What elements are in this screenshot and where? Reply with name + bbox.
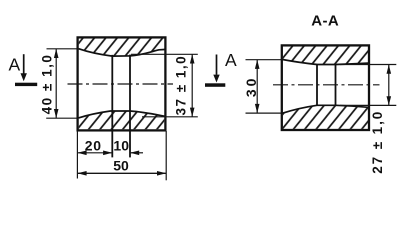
right view (A-A): outer rectangle outline	[282, 45, 369, 130]
left view: centerline (axis)	[68, 83, 174, 85]
svg-text:A-A: A-A	[311, 13, 339, 30]
extension line below right face (for 50)	[165, 131, 167, 180]
dimension 20: arrowheads	[77, 151, 112, 156]
dimension 37±1,0: dimension line	[191, 54, 193, 117]
svg-text:37 ± 1,0: 37 ± 1,0	[174, 55, 189, 116]
extension line below left face (for 20 and 50)	[76, 131, 78, 179]
dimension 30: dimension line	[256, 60, 258, 113]
section marker A (right): arrow	[213, 55, 219, 83]
section marker A (right): thick cut bar	[205, 83, 225, 87]
left view: outer rectangle outline	[78, 37, 166, 130]
right view (A-A): bore waist edge right	[335, 64, 337, 105]
svg-text:50: 50	[113, 158, 129, 174]
dimension 27±1,0: arrowheads	[387, 65, 392, 106]
right view (A-A): bore bottom profile line	[283, 105, 369, 113]
left view: bore waist edge at 30 (also extension line for 10)	[129, 55, 131, 158]
dimension 27±1,0: dimension line	[388, 65, 390, 106]
dimension 30: extension lines	[246, 60, 283, 113]
svg-text:27 ± 1,0: 27 ± 1,0	[370, 110, 385, 174]
svg-text:A: A	[225, 50, 237, 70]
left view: bore bottom profile line	[79, 111, 165, 118]
dimension 40±1,0: arrowheads	[54, 49, 59, 118]
svg-text:A: A	[8, 55, 20, 75]
left view: bore waist edge at 20 (also extension line for 20/10)	[111, 55, 113, 157]
left view: bore top profile line	[79, 49, 165, 56]
svg-text:30: 30	[243, 76, 259, 98]
dimension 40±1,0: dimension line	[55, 49, 57, 118]
right view (A-A): bore waist edge left	[316, 64, 318, 105]
right view (A-A): bore top profile line	[283, 60, 369, 65]
right view (A-A): top hatched wall	[283, 47, 368, 65]
dimension 37±1,0: extension lines	[131, 54, 198, 117]
dimension 10: external arrow with tail	[130, 152, 143, 154]
right view (A-A): bottom hatched wall	[283, 105, 368, 128]
svg-text:40 ± 1,0: 40 ± 1,0	[39, 54, 54, 115]
right view (A-A): centerline (axis)	[273, 84, 380, 86]
svg-text:10: 10	[113, 137, 129, 153]
dimension 40±1,0: extension lines	[46, 49, 78, 118]
section marker A (left): thick cut bar	[15, 83, 37, 86]
dimension 37±1,0: arrowheads	[190, 54, 195, 117]
dimension 50: dimension line	[77, 172, 166, 174]
dimension 50: arrowheads	[77, 171, 166, 176]
dimension 27±1,0: extension lines	[340, 65, 396, 106]
section marker A (left): arrow	[21, 54, 27, 81]
svg-text:20: 20	[85, 137, 102, 153]
dimension 20: dimension line	[77, 152, 112, 154]
left view: top hatched wall	[79, 39, 165, 57]
dimension 30: arrowheads	[255, 60, 260, 113]
left view: bottom hatched wall	[79, 111, 165, 129]
